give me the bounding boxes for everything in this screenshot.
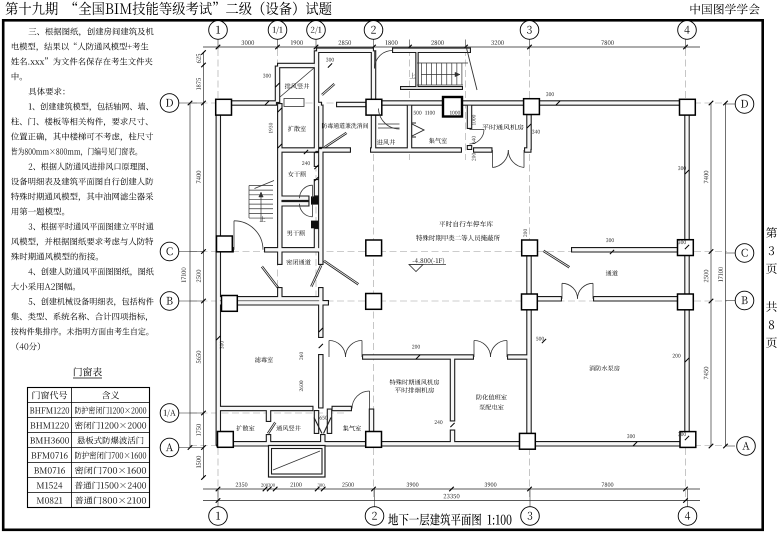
top axis circles [209,21,228,40]
air intake shaft arc [379,109,400,130]
fan room inner door [470,130,485,145]
instruction text block [29,27,154,36]
bottom gas room door [352,391,370,409]
lobby double door west of special fan room [329,341,346,358]
door arc at C wall west [234,221,263,250]
fan room south double door [493,150,509,168]
small dimension labels in plan [263,74,271,78]
bottom axis circles [209,507,228,526]
exhaust shaft diagonal [280,68,314,97]
door arc top entrance [375,51,393,69]
columns (all axis intersections) [216,99,232,115]
top dimension line [203,46,700,48]
chem duty room double door [474,341,491,358]
toilet doors arcs [300,185,313,198]
right axis circles [735,95,754,114]
left dimension lines [203,52,205,478]
bottom gas room east wall x371 [216,101,222,446]
exhaust shaft louvre box [284,99,304,107]
bottom dimension lines [203,488,700,490]
door window table [28,388,150,508]
stair left (basement) treads [249,185,273,187]
sheet title header left [6,2,332,16]
passage double door at B [562,283,578,299]
stair landing wall stub [443,97,462,117]
room labels [285,83,309,89]
blast door leaves diagonals [263,266,279,287]
partition toilets (double wall) [311,196,319,204]
blast valve funnel bottom shaft [314,418,322,434]
wall break ticks [556,101,560,105]
stair cut diagonal [466,46,477,90]
right dimension lines [710,103,712,446]
sunken light well below A [269,446,326,478]
door window table title [74,367,102,376]
plan sheet title [388,513,511,525]
axis dashed grid lines [217,49,219,500]
blast valve V symbols air shaft [412,124,424,136]
stair top right treads [421,63,423,85]
left axis circles [160,94,179,113]
sheet title header right [690,4,759,15]
right margin page number [766,227,777,238]
level mark [413,258,445,265]
